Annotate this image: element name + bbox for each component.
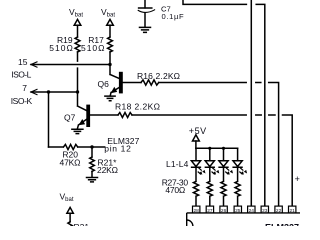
svg-text:47KΩ: 47KΩ xyxy=(60,158,81,168)
svg-text:ISO-K: ISO-K xyxy=(11,96,33,106)
svg-text:26: 26 xyxy=(221,208,227,214)
svg-text:7: 7 xyxy=(22,83,27,93)
svg-text:24: 24 xyxy=(249,208,255,214)
svg-text:25: 25 xyxy=(235,208,241,214)
svg-text:R16 2.2KΩ: R16 2.2KΩ xyxy=(137,71,180,81)
svg-text:ISO-L: ISO-L xyxy=(11,69,31,79)
svg-text:L1-L4: L1-L4 xyxy=(166,159,189,169)
svg-text:Vbat: Vbat xyxy=(69,7,83,18)
svg-text:Q6: Q6 xyxy=(98,79,110,89)
svg-text:22: 22 xyxy=(276,208,282,214)
svg-text:21: 21 xyxy=(290,208,296,214)
svg-text:15: 15 xyxy=(18,57,28,67)
svg-text:27: 27 xyxy=(207,208,213,214)
svg-text:Vbat: Vbat xyxy=(101,7,115,18)
svg-text:+5V: +5V xyxy=(189,126,206,136)
svg-text:R18 2.2KΩ: R18 2.2KΩ xyxy=(115,102,160,112)
svg-text:23: 23 xyxy=(262,208,268,214)
svg-text:0.1µF: 0.1µF xyxy=(162,12,185,21)
svg-text:28: 28 xyxy=(194,208,200,214)
svg-text:470Ω: 470Ω xyxy=(165,185,185,195)
svg-text:pin 12: pin 12 xyxy=(104,143,131,153)
svg-text:R31: R31 xyxy=(74,222,90,226)
svg-text:ELM327: ELM327 xyxy=(265,222,299,226)
svg-text:Q7: Q7 xyxy=(64,112,76,122)
svg-text:510Ω: 510Ω xyxy=(81,43,105,53)
svg-text:Vbat: Vbat xyxy=(60,192,74,203)
svg-text:+5V: +5V xyxy=(295,174,300,184)
svg-text:510Ω: 510Ω xyxy=(49,43,73,53)
svg-text:22KΩ: 22KΩ xyxy=(97,165,118,175)
